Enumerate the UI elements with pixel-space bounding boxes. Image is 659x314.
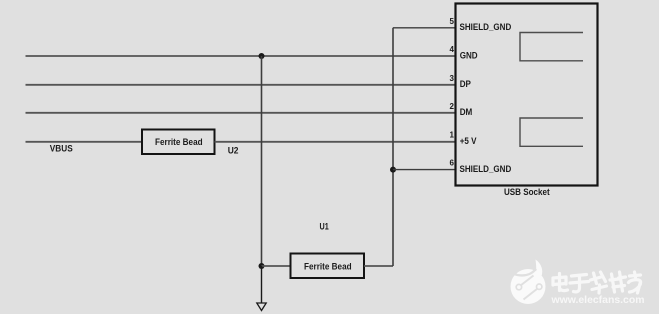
svg-text:www.elecfans.com: www.elecfans.com — [550, 295, 644, 306]
wire U2 output to +5V pin — [215, 141, 456, 143]
svg-text:2: 2 — [450, 102, 455, 111]
ferrite bead U2 — [142, 130, 215, 155]
wire pin5 stub — [393, 27, 456, 29]
junction dot at pin6 stub — [390, 167, 396, 173]
svg-text:USB Socket: USB Socket — [504, 187, 550, 198]
watermark chinese text 电子发烧友 — [553, 272, 641, 293]
svg-text:DP: DP — [460, 79, 472, 90]
svg-text:1: 1 — [450, 131, 455, 140]
wire DM net (pin 2) — [26, 112, 456, 114]
wire vertical shield riser — [392, 28, 394, 266]
svg-text:3: 3 — [450, 74, 455, 83]
svg-text:5: 5 — [450, 17, 455, 26]
watermark elecfans logo — [511, 260, 546, 305]
svg-text:SHIELD_GND: SHIELD_GND — [460, 164, 512, 175]
svg-text:VBUS: VBUS — [50, 144, 73, 155]
wire VBUS left segment — [26, 141, 143, 143]
junction dot at U1 input — [259, 263, 265, 269]
USB socket shell contact upper — [520, 33, 583, 61]
junction dot on GND wire — [259, 53, 265, 59]
ferrite bead U1 — [291, 254, 365, 279]
wire to U1 left — [262, 265, 291, 267]
ground — [257, 303, 266, 311]
svg-text:Ferrite Bead: Ferrite Bead — [304, 261, 352, 272]
svg-text:6: 6 — [450, 159, 455, 168]
svg-text:U1: U1 — [320, 222, 330, 233]
wire GND net (pin 4) — [26, 55, 456, 57]
svg-text:SHIELD_GND: SHIELD_GND — [460, 22, 512, 33]
svg-text:Ferrite Bead: Ferrite Bead — [155, 137, 203, 148]
wire U1 right — [364, 265, 393, 267]
svg-text:+5 V: +5 V — [460, 136, 477, 147]
wire ground stem — [261, 266, 263, 303]
svg-text:4: 4 — [450, 45, 455, 54]
USB socket U-body — [456, 4, 598, 186]
wire DP net (pin 3) — [26, 84, 456, 86]
wire vertical GND drop — [261, 56, 263, 266]
wire pin6 stub — [393, 169, 456, 171]
svg-text:U2: U2 — [228, 145, 239, 156]
svg-text:GND: GND — [460, 50, 478, 61]
USB socket shell contact lower — [520, 118, 583, 146]
svg-text:DM: DM — [460, 107, 473, 118]
